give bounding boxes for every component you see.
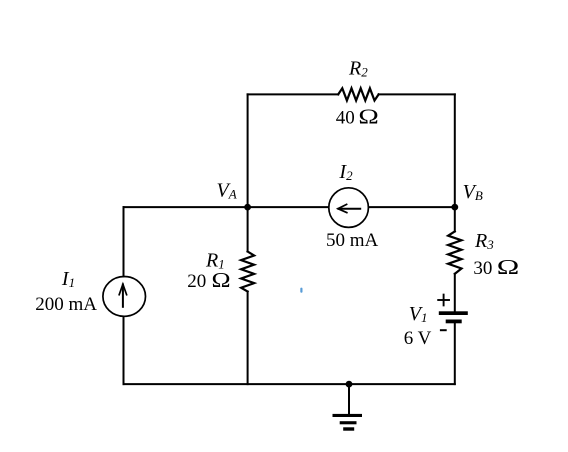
battery V1 bbox=[439, 311, 468, 323]
svg-text:V1: V1 bbox=[409, 303, 428, 325]
current source I1 bbox=[103, 277, 146, 317]
svg-text:I1: I1 bbox=[61, 268, 75, 290]
current source I2 bbox=[329, 188, 369, 228]
wire: R1 bottom lead bbox=[247, 292, 249, 385]
svg-text:Ω: Ω bbox=[358, 105, 378, 129]
wire: battery to bottom rail bbox=[454, 323, 456, 384]
svg-text:R3: R3 bbox=[474, 230, 494, 252]
wire: R3 bottom lead to battery bbox=[454, 274, 456, 312]
battery V1 minus mark bbox=[441, 329, 446, 331]
node VA bbox=[244, 204, 251, 211]
node VB bbox=[451, 204, 458, 211]
svg-text:6 V: 6 V bbox=[404, 328, 432, 349]
wire: bottom rail bbox=[124, 383, 455, 385]
wire: I2 to VB bbox=[369, 206, 455, 208]
wire: left branch upper (VA rail down to I1) bbox=[123, 207, 125, 276]
svg-text:30: 30 bbox=[473, 258, 492, 279]
wire: top rail left segment bbox=[248, 93, 339, 95]
svg-text:VA: VA bbox=[217, 179, 237, 201]
svg-text:Ω: Ω bbox=[212, 268, 231, 292]
ground bbox=[333, 384, 363, 431]
svg-text:20: 20 bbox=[187, 271, 206, 292]
svg-text:40: 40 bbox=[336, 108, 355, 129]
svg-text:I2: I2 bbox=[338, 161, 353, 183]
wire: R3 top lead bbox=[454, 207, 456, 231]
battery V1 plus mark bbox=[438, 295, 449, 306]
svg-text:200 mA: 200 mA bbox=[35, 294, 97, 315]
resistor R3 bbox=[448, 231, 461, 273]
resistor R1 bbox=[241, 252, 254, 292]
wire: R1 top lead bbox=[247, 207, 249, 251]
svg-text:VB: VB bbox=[463, 181, 483, 203]
svg-text:R2: R2 bbox=[348, 58, 368, 80]
wire: top rail right segment bbox=[379, 93, 455, 95]
wire: middle rail from left branch to VA bbox=[124, 206, 248, 208]
node: ground junction bbox=[346, 381, 353, 388]
stray blue mark bbox=[300, 288, 302, 293]
svg-text:Ω: Ω bbox=[497, 255, 520, 279]
resistor R2 bbox=[338, 88, 378, 100]
wire: left branch lower (I1 to bottom rail) bbox=[123, 317, 125, 385]
wire: riser VB to top rail bbox=[454, 94, 456, 207]
wire: riser VA to top rail bbox=[247, 94, 249, 207]
wire: VA to I2 bbox=[248, 206, 329, 208]
svg-text:50 mA: 50 mA bbox=[326, 230, 379, 251]
